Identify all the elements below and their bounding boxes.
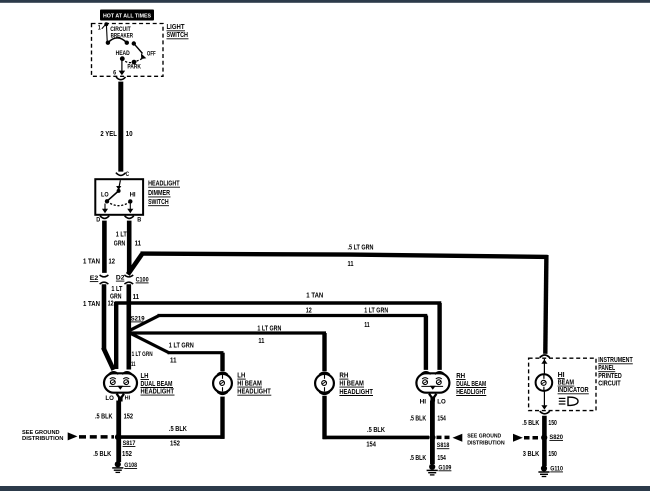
svg-text:12: 12: [306, 307, 312, 314]
svg-text:HI: HI: [558, 372, 565, 379]
svg-text:1 LT: 1 LT: [111, 286, 123, 293]
svg-text:PANEL: PANEL: [598, 365, 616, 372]
svg-text:.5 BLK: .5 BLK: [169, 426, 187, 433]
svg-text:154: 154: [437, 455, 446, 462]
svg-text:1 TAN: 1 TAN: [83, 301, 100, 308]
svg-text:11: 11: [258, 338, 264, 345]
svg-text:1 TAN: 1 TAN: [83, 258, 100, 265]
svg-text:11: 11: [133, 294, 140, 301]
svg-text:S818: S818: [437, 442, 450, 449]
svg-text:152: 152: [170, 441, 180, 448]
svg-text:PARK: PARK: [127, 63, 141, 70]
svg-text:S219: S219: [131, 315, 145, 322]
svg-text:S817: S817: [123, 440, 136, 447]
svg-text:S820: S820: [549, 434, 563, 441]
svg-text:HEADLIGHT: HEADLIGHT: [456, 389, 487, 396]
svg-text:11: 11: [135, 241, 142, 248]
svg-text:SEE GROUND: SEE GROUND: [467, 433, 501, 439]
svg-text:INSTRUMENT: INSTRUMENT: [598, 357, 633, 364]
svg-text:RH: RH: [456, 373, 465, 380]
svg-text:CIRCUIT: CIRCUIT: [110, 27, 131, 33]
svg-text:LIGHT: LIGHT: [167, 24, 186, 31]
svg-text:OFF: OFF: [147, 52, 156, 58]
svg-text:1 LT GRN: 1 LT GRN: [364, 307, 388, 314]
svg-text:HEAD: HEAD: [116, 50, 131, 57]
svg-text:LO: LO: [105, 396, 114, 402]
svg-text:.5 BLK: .5 BLK: [410, 455, 427, 462]
svg-text:.5 BLK: .5 BLK: [522, 420, 539, 427]
svg-text:12: 12: [108, 301, 114, 308]
svg-text:G109: G109: [438, 464, 451, 471]
svg-text:.5 BLK: .5 BLK: [93, 451, 111, 458]
svg-text:PRINTED: PRINTED: [598, 373, 622, 380]
svg-text:2 YEL: 2 YEL: [100, 131, 117, 138]
svg-text:DUAL BEAM: DUAL BEAM: [456, 381, 486, 388]
svg-text:.5 BLK: .5 BLK: [367, 427, 385, 434]
svg-text:DIMMER: DIMMER: [148, 190, 170, 197]
svg-text:1 LT GRN: 1 LT GRN: [169, 343, 194, 350]
svg-text:G110: G110: [550, 465, 563, 472]
svg-text:HEADLIGHT: HEADLIGHT: [339, 389, 373, 396]
svg-text:1 LT GRN: 1 LT GRN: [132, 351, 153, 358]
svg-text:3 BLK: 3 BLK: [523, 451, 540, 458]
svg-text:HEADLIGHT: HEADLIGHT: [141, 389, 175, 396]
svg-text:HOT AT ALL TIMES: HOT AT ALL TIMES: [103, 13, 151, 19]
svg-text:G108: G108: [124, 462, 137, 469]
svg-text:LO: LO: [437, 400, 446, 406]
svg-text:11: 11: [348, 261, 354, 268]
svg-text:1 TAN: 1 TAN: [306, 293, 323, 300]
svg-text:152: 152: [122, 451, 132, 458]
svg-text:12: 12: [109, 258, 116, 265]
svg-text:RH: RH: [339, 373, 348, 380]
svg-text:D2: D2: [116, 275, 125, 282]
svg-text:150: 150: [548, 420, 557, 427]
svg-text:SWITCH: SWITCH: [167, 32, 189, 39]
svg-text:11: 11: [131, 361, 136, 368]
svg-text:DUAL BEAM: DUAL BEAM: [141, 381, 173, 388]
svg-text:LH: LH: [141, 373, 149, 380]
svg-text:BREAKER: BREAKER: [111, 34, 134, 40]
svg-text:1 LT GRN: 1 LT GRN: [257, 325, 281, 332]
svg-text:11: 11: [170, 357, 177, 364]
svg-text:DISTRIBUTION: DISTRIBUTION: [467, 441, 505, 447]
svg-text:HEADLIGHT: HEADLIGHT: [237, 389, 271, 396]
svg-text:10: 10: [126, 131, 133, 138]
svg-text:GRN: GRN: [114, 241, 126, 248]
svg-text:150: 150: [548, 451, 557, 458]
svg-text:SWITCH: SWITCH: [148, 199, 169, 206]
svg-text:.5 BLK: .5 BLK: [410, 415, 427, 422]
svg-text:E2: E2: [90, 275, 99, 282]
svg-text:C100: C100: [136, 276, 149, 283]
svg-text:6: 6: [113, 69, 117, 76]
svg-text:1 LT: 1 LT: [116, 231, 128, 238]
svg-text:C: C: [126, 171, 130, 178]
svg-text:.5 BLK: .5 BLK: [95, 414, 113, 421]
svg-text:152: 152: [124, 414, 134, 421]
svg-text:LH: LH: [237, 373, 245, 380]
svg-text:HI BEAM: HI BEAM: [237, 381, 262, 388]
svg-text:LO: LO: [101, 193, 109, 199]
svg-text:1: 1: [98, 25, 102, 32]
svg-text:154: 154: [437, 415, 446, 422]
svg-text:CIRCUIT: CIRCUIT: [598, 381, 621, 388]
svg-text:HI: HI: [125, 395, 131, 401]
svg-text:D: D: [96, 217, 101, 224]
svg-text:HEADLIGHT: HEADLIGHT: [148, 181, 180, 188]
svg-text:HI BEAM: HI BEAM: [339, 381, 364, 388]
svg-text:BEAM: BEAM: [558, 380, 575, 387]
svg-text:HI: HI: [130, 192, 136, 198]
svg-text:INDICATOR: INDICATOR: [558, 387, 589, 394]
svg-text:154: 154: [366, 442, 376, 449]
svg-text:11: 11: [364, 322, 370, 329]
svg-text:GRN: GRN: [110, 294, 122, 301]
svg-text:.5 LT GRN: .5 LT GRN: [348, 244, 374, 251]
svg-text:B: B: [137, 217, 142, 224]
svg-text:HI: HI: [420, 399, 427, 405]
svg-text:DISTRIBUTION: DISTRIBUTION: [22, 436, 64, 442]
